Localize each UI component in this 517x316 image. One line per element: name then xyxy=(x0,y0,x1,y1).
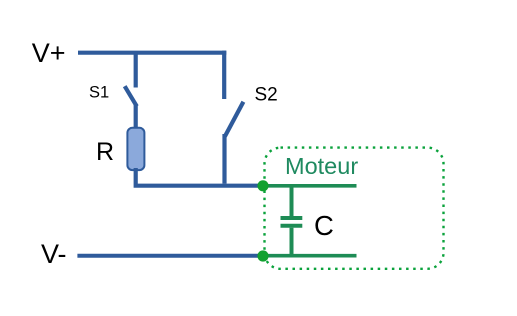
svg-text:C: C xyxy=(314,210,334,241)
switch S2 lever xyxy=(225,102,244,137)
svg-text:Moteur: Moteur xyxy=(285,153,358,179)
resistor R xyxy=(127,128,144,170)
label S2 xyxy=(255,84,278,105)
wire: motor negative lead (green) xyxy=(263,254,357,258)
capacitor C bottom plate xyxy=(281,224,303,228)
wire: S1 branch drop from rail xyxy=(134,53,138,88)
wire: switch S2 to bottom node rail xyxy=(222,134,226,184)
svg-text:S1: S1 xyxy=(89,83,109,101)
switch S1 lever xyxy=(125,86,137,106)
wire: capacitor bottom lead xyxy=(290,228,294,256)
wire: S2 branch drop from rail xyxy=(222,51,226,99)
svg-text:S2: S2 xyxy=(255,84,278,105)
node junction: bottom (motor - / V-) xyxy=(257,250,268,261)
motor block dotted outline xyxy=(265,148,444,269)
node junction: top (motor + / V+ side) xyxy=(257,180,268,191)
wire: capacitor top lead xyxy=(290,186,294,217)
svg-text:V+: V+ xyxy=(32,38,66,68)
capacitor C top plate xyxy=(281,216,303,220)
wire: V+ rail horizontal xyxy=(78,51,226,55)
wire: V- rail horizontal xyxy=(77,254,263,258)
wire: resistor to bottom node rail xyxy=(136,168,263,186)
label Moteur xyxy=(285,153,358,179)
net label V- xyxy=(41,239,67,269)
svg-text:V-: V- xyxy=(41,239,67,269)
label R xyxy=(96,138,114,166)
label C xyxy=(314,210,334,241)
net label V+ xyxy=(32,38,66,68)
label S1 xyxy=(89,83,109,101)
svg-text:R: R xyxy=(96,138,114,166)
wire: switch S1 to resistor xyxy=(134,105,138,131)
wire: motor positive lead (green) xyxy=(263,184,357,188)
